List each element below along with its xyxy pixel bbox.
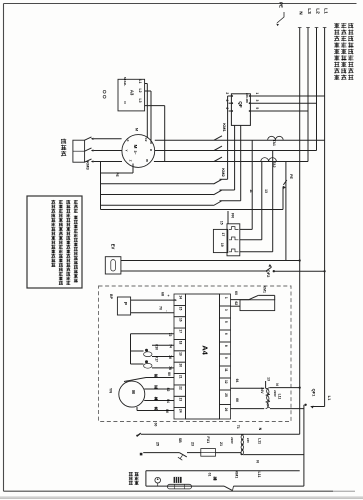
wire row SB FU1	[143, 452, 179, 454]
wire compressor delta 1	[101, 183, 214, 185]
A3 sense wire 3	[145, 105, 165, 107]
svg-text:L1: L1	[138, 80, 142, 84]
svg-text:25: 25	[156, 442, 160, 446]
svg-text:66: 66	[235, 398, 239, 402]
svg-text:L2: L2	[315, 8, 321, 14]
svg-text:Z: Z	[129, 160, 133, 162]
svg-text:PE: PE	[115, 172, 119, 177]
valve EV box	[105, 257, 121, 274]
svg-text:PE: PE	[289, 174, 293, 179]
wire 86 to terminal 24	[136, 407, 138, 411]
wire EV to QF2	[121, 270, 266, 272]
temp sensor 1	[145, 349, 148, 352]
wire motor U through KM1 to TA1/L1	[155, 139, 325, 141]
svg-text:BP: BP	[109, 294, 113, 300]
KM1 pole 3 blade	[214, 157, 222, 161]
svg-text:16: 16	[179, 318, 183, 322]
plug contact arrow 1	[91, 138, 94, 140]
svg-text:A4: A4	[201, 345, 210, 355]
notes text (Chinese)	[74, 200, 78, 202]
svg-text:86: 86	[165, 409, 169, 413]
compressor label (Chinese)	[61, 138, 66, 140]
wire L2 phase drop to FR	[272, 151, 274, 252]
svg-text:L2: L2	[138, 89, 142, 93]
svg-text:5: 5	[224, 321, 228, 323]
svg-text:KM1: KM1	[263, 286, 267, 293]
heater striped block	[174, 477, 182, 483]
svg-text:24V: 24V	[246, 438, 250, 443]
wire 13 stub above transformer	[265, 381, 267, 388]
svg-text:220V: 220V	[273, 390, 277, 397]
svg-text:72: 72	[168, 333, 172, 337]
svg-text:L11: L11	[257, 438, 261, 444]
controller A4 box	[186, 294, 220, 419]
wire QF1 drop	[303, 405, 305, 486]
svg-text:L11: L11	[257, 472, 261, 478]
QF terminal 1 wire to L1	[250, 95, 324, 97]
KM2 pole 2 blade	[214, 190, 222, 195]
QF terminal 5 wire to L3	[250, 110, 308, 112]
wire 82 colour mark	[154, 385, 157, 387]
wire 82 to terminal 22	[144, 388, 174, 390]
svg-text:01: 01	[208, 473, 212, 477]
svg-text:62: 62	[234, 301, 238, 305]
KM2 pole 1 blade	[214, 180, 222, 184]
plug blade 1	[85, 137, 92, 140]
wire row N secondary	[146, 470, 300, 472]
svg-text:3: 3	[255, 100, 259, 102]
svg-text:L11: L11	[278, 394, 282, 400]
svg-text:Y: Y	[125, 149, 129, 151]
valve EV capsule	[111, 260, 116, 271]
svg-text:8: 8	[224, 345, 228, 347]
wire row L11 secondary	[244, 454, 304, 456]
svg-text:74: 74	[168, 344, 172, 348]
wire 13 drop from TA2 wire	[261, 162, 263, 240]
wire motor W through KM1 to TA2/L3	[154, 161, 308, 163]
wire rail L3 vertical	[307, 28, 309, 162]
disconnect QF2 blade	[266, 267, 272, 271]
KM1 heater contact blade	[224, 486, 233, 491]
svg-text:13: 13	[264, 189, 268, 193]
svg-text:4: 4	[225, 100, 229, 102]
wire L2 corner to FR	[240, 251, 273, 253]
svg-text:W: W	[145, 159, 149, 162]
QF terminal 4 stub	[229, 102, 232, 104]
note: user distribution-cabinet annotation (Chinese, 3 columns)	[334, 23, 353, 80]
plug blade 2	[85, 148, 92, 151]
transformer L11 24V secondary coil	[267, 388, 270, 408]
border frame bottom	[4, 490, 334, 492]
svg-text:N: N	[258, 428, 262, 431]
svg-text:L3: L3	[306, 8, 312, 14]
sensor bracket	[130, 334, 132, 364]
QF terminal 2 stub	[228, 95, 232, 97]
svg-text:1: 1	[224, 297, 228, 299]
svg-text:M: M	[135, 128, 139, 131]
heater circle mark	[155, 477, 161, 483]
wire 80 colour mark	[154, 373, 157, 375]
svg-text:5: 5	[255, 107, 259, 109]
svg-text:KM3: KM3	[86, 161, 91, 170]
svg-text:K17: K17	[155, 356, 159, 362]
switch SB blade	[179, 453, 187, 457]
wire transformer to N rail	[270, 387, 300, 389]
wire 76 to terminal 19	[152, 356, 174, 358]
wire 13 corner to FR	[240, 239, 262, 241]
wire QF phase C drop	[240, 125, 242, 200]
wire KM2 pole1 out	[220, 178, 228, 180]
notes box	[27, 196, 82, 288]
PE arrow near TA2	[282, 187, 284, 210]
compressor plug body	[73, 140, 85, 162]
breaker QF box	[231, 94, 250, 126]
svg-text:11: 11	[249, 189, 253, 193]
wire 78 to terminal 20	[152, 367, 174, 369]
end mark b	[137, 433, 141, 436]
svg-text:17: 17	[221, 233, 225, 237]
svg-text:PE: PE	[279, 2, 284, 8]
plug contact arrow 3	[91, 160, 94, 162]
svg-text:220-400: 220-400	[245, 93, 249, 103]
svg-text:EV: EV	[110, 244, 115, 250]
svg-text:19: 19	[179, 352, 183, 356]
contactor coil box	[240, 300, 275, 311]
compressor plug divider	[73, 150, 85, 152]
svg-text:14: 14	[179, 295, 183, 299]
wire 62 from terminal 3	[231, 305, 241, 307]
svg-text:A3: A3	[130, 90, 135, 96]
svg-text:13: 13	[267, 377, 271, 381]
wire 84 colour mark	[154, 396, 157, 398]
svg-text:FU1: FU1	[206, 436, 210, 443]
svg-text:6: 6	[224, 333, 228, 335]
svg-text:21: 21	[219, 442, 223, 446]
motor PE stub	[132, 164, 134, 174]
KM1 pole 2 blade	[214, 146, 222, 150]
wire PE run to earth arrow	[101, 209, 284, 211]
svg-text:24: 24	[179, 409, 183, 413]
svg-text:YN: YN	[109, 388, 113, 394]
FR outer box	[227, 224, 240, 256]
rail L2 tick	[315, 27, 319, 29]
svg-text:25: 25	[224, 393, 228, 397]
transformer T1 secondary coil	[241, 435, 244, 455]
svg-text:17: 17	[179, 329, 183, 333]
svg-text:KM1: KM1	[222, 123, 227, 132]
svg-text:FR: FR	[231, 213, 235, 218]
svg-text:82: 82	[166, 388, 170, 392]
motor M circle	[122, 135, 155, 168]
KM1 pole 1 blade	[214, 136, 222, 140]
svg-text:220V: 220V	[230, 437, 234, 444]
svg-text:+: +	[166, 294, 170, 296]
FR heater 2	[229, 237, 239, 240]
heater pill body	[168, 484, 192, 489]
svg-text:22: 22	[179, 386, 183, 390]
KM2 pole 3 blade	[214, 201, 222, 206]
svg-text:15: 15	[179, 307, 183, 311]
svg-text:68: 68	[161, 292, 165, 296]
wire 74 to terminal 18	[152, 344, 174, 346]
svg-text:QF1: QF1	[312, 389, 317, 398]
svg-text:N: N	[256, 460, 260, 463]
svg-text:U: U	[149, 149, 153, 151]
wire compressor delta 3	[101, 204, 214, 206]
wire 68 arrow	[175, 299, 177, 301]
svg-text:23: 23	[191, 442, 195, 446]
wire 60 into coil	[258, 294, 275, 296]
wire 84 to terminal 23	[144, 400, 174, 402]
wire KM2 pole3 out	[220, 200, 241, 202]
svg-text:SB: SB	[178, 438, 182, 443]
wire KM2 pole2 out	[220, 189, 235, 191]
wire 60 from terminal 1	[231, 299, 250, 301]
svg-text:18: 18	[179, 341, 183, 345]
wire rail L1 vertical	[324, 28, 326, 407]
border frame top	[4, 3, 357, 5]
svg-text:70: 70	[158, 306, 162, 310]
svg-text:80: 80	[167, 372, 171, 376]
PE earth arrow at supply	[277, 12, 284, 23]
svg-text:15: 15	[220, 221, 224, 225]
svg-text:12: 12	[224, 380, 228, 384]
wire row heater L11	[146, 485, 224, 487]
terminal strip left column (14-24)	[174, 294, 186, 305]
fuse FU1	[201, 449, 216, 457]
svg-text:64: 64	[235, 379, 239, 383]
svg-text:QF2: QF2	[266, 270, 271, 279]
plug blade 3	[85, 159, 92, 162]
wire QF phase A drop	[227, 96, 229, 179]
svg-text:26: 26	[224, 408, 228, 412]
wire 11 drop from TA1 wire	[251, 140, 253, 229]
wire transformer to QF1 drop	[270, 408, 304, 410]
svg-text:2: 2	[225, 92, 229, 94]
cabinet dashed box	[99, 286, 292, 422]
page bottom scan shadow	[0, 496, 363, 498]
svg-text:76: 76	[168, 355, 172, 359]
wire QF2 to L1 rail	[274, 270, 325, 272]
svg-text:20: 20	[179, 363, 183, 367]
current transformer TA2	[261, 158, 277, 162]
svg-text:00: 00	[154, 423, 158, 427]
wire EV to N rail	[121, 260, 300, 262]
end mark a	[140, 453, 143, 456]
switch SB actuator	[180, 455, 182, 458]
sensor BP box	[117, 297, 130, 315]
wire compressor delta 2	[101, 194, 214, 196]
temp sensor 2	[145, 360, 148, 363]
wire 86 colour mark	[154, 406, 157, 408]
svg-text:M: M	[133, 145, 138, 149]
transformer T1 primary coil	[241, 435, 244, 455]
QF terminal 3 wire to L2	[250, 102, 316, 104]
heater loop left edge	[145, 471, 147, 486]
A3 sense wire 2	[145, 90, 151, 92]
wire rail L2 vertical	[316, 28, 318, 151]
heater label (Chinese)	[129, 472, 133, 474]
FR heater 1	[229, 227, 239, 230]
svg-text:K30: K30	[155, 344, 159, 350]
wire QF phase B drop	[234, 125, 236, 190]
wire 64	[231, 387, 265, 389]
terminal strip right column (1-26)	[220, 294, 231, 306]
svg-text:N: N	[298, 11, 304, 15]
svg-text:3~: 3~	[133, 150, 137, 154]
A3 sense wire 1	[145, 83, 148, 85]
rail N tick	[298, 27, 302, 29]
svg-text:C2: C2	[144, 138, 148, 142]
svg-text:TA1: TA1	[272, 140, 276, 146]
svg-text:M: M	[131, 390, 136, 394]
svg-text:84: 84	[166, 399, 170, 403]
svg-text:21: 21	[179, 375, 183, 379]
svg-text:KM1: KM1	[235, 471, 239, 479]
QF1 arrow	[310, 405, 314, 409]
svg-text:L1: L1	[323, 8, 329, 14]
svg-text:11: 11	[224, 368, 228, 372]
wire L1 turn	[311, 406, 324, 408]
svg-text:X: X	[126, 139, 130, 141]
fan YN circle	[119, 381, 145, 407]
svg-text:19: 19	[220, 243, 224, 247]
wire 66	[231, 408, 265, 410]
rail L1 tick	[323, 27, 327, 29]
svg-text:23: 23	[179, 398, 183, 402]
svg-text:P: P	[123, 302, 128, 305]
rail L3 tick	[306, 27, 310, 29]
FR inner box	[213, 229, 227, 252]
wire 11 corner to FR	[240, 228, 252, 230]
QF terminal dots	[231, 95, 233, 97]
svg-text:L3: L3	[138, 99, 142, 103]
svg-text:9: 9	[224, 357, 228, 359]
svg-text:3: 3	[224, 309, 228, 311]
svg-text:78: 78	[168, 366, 172, 370]
monitor A3 box	[118, 79, 145, 111]
A3 aux circles	[103, 90, 106, 93]
svg-text:1: 1	[255, 92, 259, 94]
wire motor V through KM1 to L2	[155, 150, 317, 152]
svg-text:24V: 24V	[260, 387, 264, 394]
svg-text:L1: L1	[327, 396, 332, 401]
wire 80 to terminal 21	[146, 377, 174, 379]
wire 72 to terminal 17	[131, 333, 175, 335]
wire 68 to terminal 14	[131, 299, 174, 301]
QF2 junction dot	[273, 270, 275, 272]
svg-text:T1: T1	[236, 425, 240, 429]
svg-text:S1S2L: S1S2L	[123, 77, 127, 87]
plug contact arrow 2	[91, 149, 94, 151]
FR heater 3	[229, 249, 239, 252]
KM1 aux blade	[249, 295, 258, 299]
border frame left	[3, 4, 5, 492]
wire 70 to terminal 15	[131, 312, 174, 314]
QF terminal 6 stub	[229, 110, 232, 112]
svg-text:6: 6	[225, 107, 229, 109]
wire plug drop	[100, 162, 102, 210]
wire stub above FR	[227, 211, 229, 224]
transformer L11 24V primary coil	[266, 388, 269, 408]
wire row 00 to T1	[141, 433, 300, 435]
wire N rail turn	[299, 433, 301, 435]
wire rail N vertical	[299, 28, 301, 435]
svg-text:KM2: KM2	[221, 168, 226, 177]
wire EV supply drop from L3 wire	[285, 162, 287, 261]
wire 80 diagonal	[124, 378, 146, 382]
QF1 junction dot	[304, 404, 306, 406]
svg-text:60: 60	[234, 291, 238, 295]
current transformer TA1	[268, 136, 284, 140]
svg-text:QF: QF	[238, 101, 243, 108]
